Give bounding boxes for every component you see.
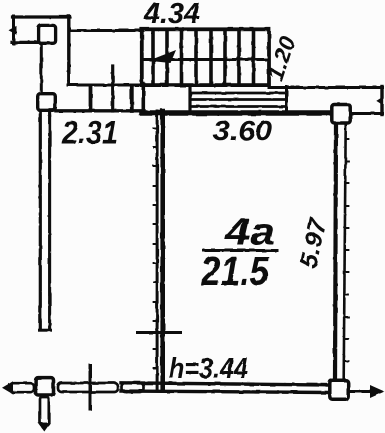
entry vestibule left wall: [12, 16, 15, 44]
east arrow shaft: [350, 390, 372, 393]
top wall line right extension: [269, 86, 383, 89]
bottom wall lower line: [121, 391, 329, 393]
stair left edge lower continuation: [142, 84, 146, 112]
landing bottom line: [190, 105, 287, 108]
facade band bottom line: [56, 109, 144, 112]
west arrow shaft: [10, 383, 34, 392]
east arrow head: [370, 385, 385, 398]
south arrow head below C4: [38, 423, 51, 432]
svg-text:3.60: 3.60: [213, 115, 272, 146]
stair treads: [153, 31, 254, 84]
room left wall line a: [156, 111, 159, 389]
bottom wall pill segment 2: [122, 383, 144, 392]
wall stub right of column C3: [352, 112, 383, 115]
facade band top line: [68, 84, 143, 87]
right edge vertical: [380, 87, 383, 115]
svg-text:4.34: 4.34: [143, 0, 200, 30]
right wall line b: [344, 125, 346, 379]
column C2 left: [38, 94, 56, 111]
landing line 2: [190, 98, 287, 101]
bottom wall pill segment 1: [58, 383, 118, 392]
right wall line a: [335, 125, 336, 379]
lobby top wall y30: [70, 29, 143, 32]
stair direction arrow: [149, 50, 177, 63]
svg-text:h=3.44: h=3.44: [169, 353, 248, 385]
entry vestibule bottom line: [12, 41, 38, 44]
fraction line: [204, 249, 277, 252]
west arrow head: [2, 381, 13, 394]
tick on left wall: [138, 331, 181, 334]
svg-text:2.31: 2.31: [61, 115, 118, 151]
landing right edge: [285, 87, 288, 111]
hatch ticks left wall: [154, 128, 157, 368]
landing line 1: [190, 92, 287, 95]
window pier x132: [130, 86, 134, 111]
room left wall line b: [160, 111, 165, 389]
left outer wall bottom cap: [40, 329, 51, 332]
south stub below C4: [40, 397, 49, 424]
staircase middle line: [142, 58, 269, 61]
bottom wall upper line: [121, 383, 328, 385]
corridor wall vertical x69: [67, 17, 70, 85]
entry vestibule top line: [13, 15, 71, 18]
entrance arrow head left: [9, 26, 17, 35]
landing left edge: [188, 87, 191, 111]
tick on bottom wall x90: [89, 365, 92, 409]
window pier x90: [89, 86, 93, 110]
left outer wall line b: [48, 112, 51, 329]
staircase outer box: [142, 29, 269, 85]
door jamb x113: [111, 66, 114, 111]
room top wall thick: [142, 110, 330, 116]
column C5 bottom-right: [330, 380, 348, 399]
column C1 top-left: [39, 25, 56, 43]
connector wall between C1 and C2: [40, 46, 43, 93]
hatch ticks right wall: [346, 139, 349, 361]
svg-text:21.5: 21.5: [200, 248, 270, 294]
column C3 top-right: [332, 105, 350, 124]
left outer wall line a: [39, 112, 42, 329]
column C4 bottom-left: [36, 378, 54, 395]
tick arrow on right edge: [376, 97, 382, 105]
